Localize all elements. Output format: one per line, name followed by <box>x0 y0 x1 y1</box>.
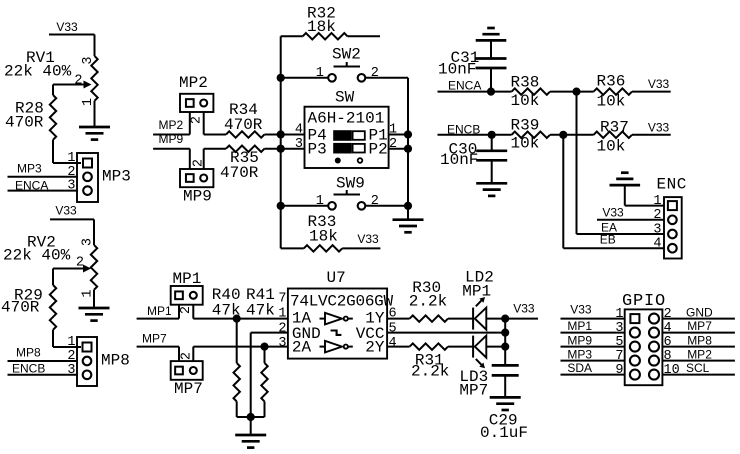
svg-text:10k: 10k <box>597 93 626 111</box>
junction <box>277 145 285 153</box>
jumper MP1 <box>171 270 203 319</box>
svg-text:MP1: MP1 <box>567 319 592 333</box>
svg-text:3: 3 <box>67 363 75 378</box>
svg-text:6: 6 <box>664 335 672 350</box>
wire <box>52 85 54 96</box>
wire (left bus vertical) <box>280 36 282 248</box>
resistor R31 2.2k <box>387 343 473 380</box>
resistor R30 2.2k <box>387 279 473 322</box>
svg-text:470R: 470R <box>1 299 40 317</box>
svg-text:2: 2 <box>67 165 75 180</box>
net label MP3 (GPIO pin7) <box>561 347 625 361</box>
svg-text:V33: V33 <box>56 20 78 34</box>
svg-text:4: 4 <box>389 336 397 351</box>
net label MP1 <box>137 304 179 319</box>
svg-text:SCL: SCL <box>686 361 710 375</box>
junction <box>488 131 496 139</box>
svg-text:MP1: MP1 <box>462 283 491 301</box>
svg-text:10k: 10k <box>597 138 626 156</box>
power flag V33 (top-left) <box>49 20 95 35</box>
net label ENCB <box>438 123 512 137</box>
junction <box>404 130 412 138</box>
svg-text:MP9: MP9 <box>567 333 592 347</box>
switch SW9 <box>281 175 408 210</box>
resistor R39 10k <box>511 117 594 153</box>
svg-text:2.2k: 2.2k <box>411 363 449 381</box>
svg-text:MP3: MP3 <box>102 168 131 186</box>
wire <box>52 269 54 286</box>
svg-text:P3: P3 <box>308 141 327 159</box>
svg-text:V33: V33 <box>602 206 624 220</box>
LED LD2 (MP1) <box>462 269 505 330</box>
net label V33 (ENC pin2) <box>597 206 664 220</box>
power flag V33 (right of R33) <box>357 232 379 246</box>
DIP switch SW A6H-2101 <box>295 89 397 169</box>
svg-text:3: 3 <box>81 56 96 64</box>
svg-text:3: 3 <box>653 222 661 237</box>
wire (net 2A) <box>193 346 288 348</box>
svg-text:ENCB: ENCB <box>12 362 45 376</box>
svg-text:V33: V33 <box>55 204 77 218</box>
svg-text:2: 2 <box>664 307 672 322</box>
svg-text:MP3: MP3 <box>567 347 592 361</box>
svg-text:U7: U7 <box>327 269 346 287</box>
junction <box>260 343 268 351</box>
svg-text:74LVC2G06GW: 74LVC2G06GW <box>290 293 394 311</box>
svg-text:1: 1 <box>615 307 623 322</box>
svg-text:MP2: MP2 <box>179 74 208 92</box>
net label MP7 <box>137 332 179 347</box>
inverter gate B (inside U7) <box>320 341 353 353</box>
svg-text:V33: V33 <box>357 232 379 246</box>
resistor R33 18k <box>281 213 381 252</box>
svg-text:2: 2 <box>371 194 379 209</box>
svg-text:2: 2 <box>389 137 397 152</box>
svg-text:SW: SW <box>335 89 355 107</box>
connector GPIO <box>615 292 679 385</box>
svg-text:MP2: MP2 <box>687 347 712 361</box>
svg-text:7: 7 <box>615 349 623 364</box>
capacitor C31 10nF <box>438 49 507 92</box>
svg-text:MP3: MP3 <box>17 162 42 176</box>
svg-text:3: 3 <box>67 179 75 194</box>
wire (net EB) <box>563 135 664 248</box>
junction <box>277 202 285 210</box>
net label MP9 <box>153 132 190 149</box>
svg-text:2: 2 <box>179 306 194 314</box>
svg-text:MP7: MP7 <box>459 382 488 400</box>
junction <box>404 202 412 210</box>
ground (inverted, at ENC pin1) <box>610 173 665 206</box>
svg-text:7: 7 <box>278 292 286 307</box>
svg-text:4: 4 <box>653 237 661 252</box>
jumper MP2 <box>179 74 213 135</box>
svg-text:V33: V33 <box>648 77 670 91</box>
svg-text:4: 4 <box>295 123 303 138</box>
net label EB <box>600 233 616 247</box>
wire <box>94 35 96 57</box>
junction <box>487 88 495 96</box>
svg-text:3: 3 <box>81 238 96 246</box>
wire (net 1A) <box>193 318 288 320</box>
svg-text:1: 1 <box>653 194 661 209</box>
wire (net EA) <box>577 92 665 234</box>
jumper MP9 <box>180 149 213 206</box>
capacitor C30 10nF <box>440 135 507 184</box>
svg-text:MP2: MP2 <box>159 118 184 132</box>
resistor R37 10k <box>594 119 671 156</box>
svg-text:2: 2 <box>278 322 286 337</box>
svg-text:SW9: SW9 <box>336 175 365 193</box>
resistor R41 47k <box>246 286 275 417</box>
svg-text:ENCA: ENCA <box>448 79 481 93</box>
jumper MP7 <box>171 347 203 398</box>
svg-text:MP7: MP7 <box>174 380 203 398</box>
svg-text:18k: 18k <box>309 228 338 246</box>
connector MP8 <box>67 335 129 386</box>
open-drain mark (inside U7) <box>331 331 342 335</box>
ground (inverted, above C31) <box>476 28 507 40</box>
svg-text:470R: 470R <box>5 114 44 132</box>
resistor R36 10k <box>594 73 671 111</box>
svg-text:2: 2 <box>653 208 661 223</box>
svg-text:SDA: SDA <box>567 361 592 375</box>
LED LD3 (MP7) <box>459 336 505 400</box>
svg-text:MP7: MP7 <box>142 332 167 346</box>
wire <box>490 40 492 58</box>
svg-text:4: 4 <box>664 321 672 336</box>
net label SCL (GPIO pin10) <box>662 361 735 375</box>
wire <box>237 416 265 418</box>
svg-text:MP9: MP9 <box>159 132 184 146</box>
junction <box>559 131 567 139</box>
resistor R38 10k <box>511 74 594 111</box>
svg-text:47k: 47k <box>212 302 241 320</box>
net label MP1 (GPIO pin3) <box>561 319 625 333</box>
svg-text:V33: V33 <box>648 121 670 135</box>
junction <box>233 315 241 323</box>
svg-text:1: 1 <box>316 66 324 81</box>
svg-text:2.2k: 2.2k <box>409 293 447 311</box>
net label MP2 <box>153 118 190 135</box>
svg-text:1: 1 <box>67 151 75 166</box>
svg-text:1: 1 <box>278 307 286 322</box>
ground (under C29) <box>490 397 521 410</box>
svg-text:MP8: MP8 <box>101 352 130 370</box>
connector MP3 <box>67 151 130 202</box>
junction <box>277 130 285 138</box>
junction <box>501 315 509 323</box>
wire (P2 to right bus) <box>389 148 408 150</box>
wire (VCC pin5) <box>387 332 505 334</box>
wire (P1 to right bus) <box>389 134 408 136</box>
net label ENCA <box>8 178 79 192</box>
svg-text:9: 9 <box>615 363 623 378</box>
net label EA <box>601 221 617 235</box>
net label MP9 (GPIO pin5) <box>561 333 625 347</box>
wire <box>93 219 95 245</box>
net label V33 (GPIO pin1) <box>561 303 625 319</box>
power flag V33 (right of LD2) <box>505 302 538 319</box>
svg-text:2Y: 2Y <box>365 339 385 357</box>
junction <box>404 145 412 153</box>
svg-text:0.1uF: 0.1uF <box>480 424 528 442</box>
net label ENCB <box>8 362 79 376</box>
power flag V33 (right of R37) <box>648 121 670 135</box>
net label MP8 (GPIO pin6) <box>662 333 735 347</box>
ground (under RV2) <box>79 308 110 321</box>
svg-text:22k 40%: 22k 40% <box>4 63 72 81</box>
svg-text:V33: V33 <box>513 302 535 316</box>
svg-text:8: 8 <box>664 349 672 364</box>
svg-text:MP1: MP1 <box>147 304 172 318</box>
junction <box>572 88 580 96</box>
svg-text:10nF: 10nF <box>440 151 478 169</box>
resistor R40 47k <box>212 286 241 417</box>
svg-text:2: 2 <box>179 352 194 360</box>
svg-text:5: 5 <box>615 335 623 350</box>
net label MP3 <box>8 162 79 177</box>
inverter gate A (inside U7) <box>320 313 353 325</box>
svg-text:2: 2 <box>74 74 82 89</box>
net label SDA (GPIO pin9) <box>561 361 625 375</box>
svg-text:1: 1 <box>67 335 75 350</box>
wire <box>504 319 506 366</box>
ground (under RV1) <box>79 127 110 140</box>
IC U7 74LVC2G06GW <box>278 269 396 359</box>
svg-text:ENC: ENC <box>657 176 687 194</box>
net label MP7 (GPIO pin4) <box>662 319 735 333</box>
wire (GND pin2 of U7) <box>251 333 288 417</box>
svg-text:R36: R36 <box>597 73 626 91</box>
net label GND (GPIO pin2) <box>662 305 735 319</box>
resistor R28 470R <box>5 95 81 163</box>
switch SW2 <box>281 46 408 82</box>
connector ENC <box>653 176 686 259</box>
wire (right bus vertical) <box>407 78 409 220</box>
junction <box>501 329 509 337</box>
junction <box>247 413 255 421</box>
svg-text:P2: P2 <box>369 141 388 159</box>
svg-text:10nF: 10nF <box>438 61 476 79</box>
svg-text:MP8: MP8 <box>16 346 41 360</box>
svg-text:2: 2 <box>67 349 75 364</box>
svg-text:2: 2 <box>371 66 379 81</box>
ground (right of SW9) <box>393 220 424 233</box>
svg-text:GPIO: GPIO <box>622 292 666 311</box>
svg-text:SW2: SW2 <box>332 46 361 64</box>
junction <box>277 74 285 82</box>
svg-text:GND: GND <box>686 305 713 319</box>
resistor R32 18k <box>281 5 380 40</box>
resistor R29 470R <box>1 285 81 347</box>
power flag V33 (above RV2) <box>50 204 94 220</box>
svg-text:3: 3 <box>615 321 623 336</box>
svg-text:5: 5 <box>389 322 397 337</box>
svg-text:2A: 2A <box>292 339 312 357</box>
svg-text:2: 2 <box>189 116 204 124</box>
potentiometer RV2 22k 40% <box>3 234 97 309</box>
net label ENCA <box>438 79 512 93</box>
svg-text:47k: 47k <box>246 302 275 320</box>
svg-text:3: 3 <box>295 137 303 152</box>
ground (under C30) <box>476 183 507 196</box>
svg-text:3: 3 <box>278 336 286 351</box>
svg-text:1: 1 <box>316 194 324 209</box>
ground (below R40/R41) <box>235 417 266 448</box>
svg-text:10: 10 <box>664 363 680 378</box>
svg-text:V33: V33 <box>570 303 592 317</box>
net label MP2 (GPIO pin8) <box>662 347 735 361</box>
svg-text:MP8: MP8 <box>687 333 712 347</box>
junction <box>501 343 509 351</box>
net label MP8 <box>8 346 79 362</box>
capacitor C29 0.1uF <box>480 365 528 442</box>
svg-text:EB: EB <box>600 233 616 247</box>
svg-text:MP9: MP9 <box>183 188 212 206</box>
resistor R35 470R <box>204 146 305 183</box>
svg-text:A6H-2101: A6H-2101 <box>308 110 385 128</box>
svg-text:22k 40%: 22k 40% <box>3 247 71 265</box>
svg-text:470R: 470R <box>220 164 259 182</box>
resistor R34 470R <box>204 101 305 138</box>
potentiometer RV1 22k 40% <box>4 49 98 127</box>
power flag V33 (right of R36) <box>648 77 670 91</box>
svg-text:MP7: MP7 <box>687 319 712 333</box>
